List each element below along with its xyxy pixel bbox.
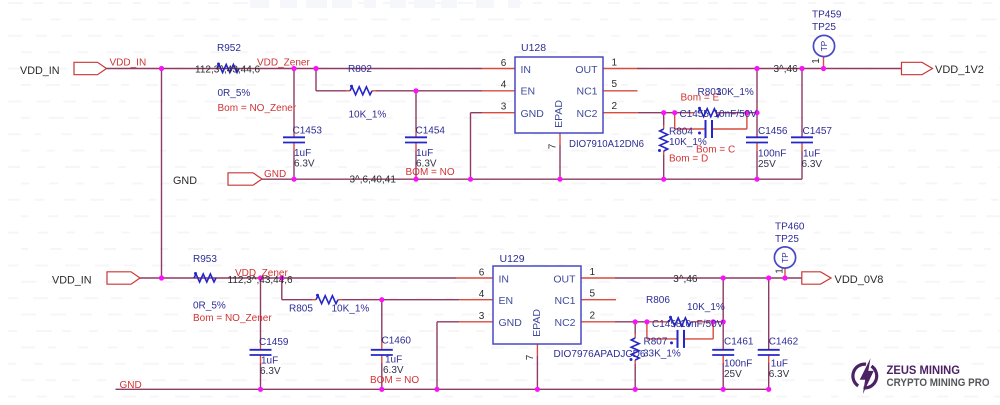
svg-text:Bom = NO_Zener: Bom = NO_Zener — [218, 103, 297, 114]
svg-text:25V: 25V — [758, 159, 776, 170]
svg-text:10K_1%: 10K_1% — [716, 87, 754, 98]
svg-text:Bom = D: Bom = D — [669, 154, 708, 165]
svg-text:100nF: 100nF — [758, 149, 786, 160]
svg-text:C1453: C1453 — [293, 126, 323, 137]
svg-text:BOM = NO: BOM = NO — [370, 375, 419, 386]
svg-text:4: 4 — [479, 289, 485, 300]
svg-text:0R_5%: 0R_5% — [193, 301, 226, 312]
svg-text:1: 1 — [590, 267, 596, 278]
svg-text:10K_1%: 10K_1% — [687, 302, 725, 313]
svg-text:ZEUS MINING: ZEUS MINING — [887, 365, 961, 377]
svg-text:10nF/50V: 10nF/50V — [714, 109, 758, 120]
svg-text:EN: EN — [499, 295, 514, 307]
svg-text:VDD_Zener: VDD_Zener — [257, 58, 310, 69]
svg-text:TP: TP — [781, 252, 790, 263]
svg-text:DIO7976APADJCD6: DIO7976APADJCD6 — [554, 348, 646, 360]
svg-text:NC2: NC2 — [554, 317, 575, 329]
svg-text:GND: GND — [173, 175, 197, 187]
svg-text:R806: R806 — [646, 295, 670, 306]
svg-text:5: 5 — [590, 289, 596, 300]
svg-text:VDD_IN: VDD_IN — [20, 65, 60, 77]
svg-text:C1458: C1458 — [652, 319, 682, 330]
svg-text:0R_5%: 0R_5% — [218, 88, 251, 99]
svg-text:TP459: TP459 — [812, 10, 842, 21]
svg-text:C1460: C1460 — [382, 336, 412, 347]
svg-text:VDD_0V8: VDD_0V8 — [835, 274, 884, 286]
svg-text:IN: IN — [499, 274, 510, 286]
svg-text:VDD_IN: VDD_IN — [110, 58, 147, 69]
svg-text:2: 2 — [590, 311, 596, 322]
svg-text:1uF: 1uF — [385, 355, 402, 366]
svg-text:OUT: OUT — [553, 274, 576, 286]
svg-text:100nF: 100nF — [724, 359, 752, 370]
svg-text:EPAD: EPAD — [553, 100, 565, 128]
svg-text:Bom = E: Bom = E — [681, 93, 720, 104]
svg-text:1uF: 1uF — [771, 359, 788, 370]
svg-text:6.3V: 6.3V — [294, 159, 315, 170]
svg-text:TP460: TP460 — [775, 222, 805, 233]
svg-text:DIO7910A12DN6: DIO7910A12DN6 — [569, 138, 644, 150]
svg-text:1uF: 1uF — [416, 148, 433, 159]
svg-text:R807: R807 — [644, 337, 668, 348]
svg-text:4: 4 — [501, 80, 507, 91]
svg-text:3: 3 — [479, 311, 485, 322]
svg-text:C1456: C1456 — [758, 126, 788, 137]
svg-text:C1462: C1462 — [769, 337, 799, 348]
svg-text:6.3V: 6.3V — [802, 159, 823, 170]
svg-text:3^,46: 3^,46 — [673, 274, 698, 285]
svg-text:3^,46: 3^,46 — [774, 64, 799, 75]
svg-text:3^,6,40,41: 3^,6,40,41 — [350, 175, 397, 186]
svg-text:BOM = NO: BOM = NO — [406, 167, 455, 178]
svg-text:GND: GND — [499, 317, 523, 329]
svg-text:Bom = NO_Zener: Bom = NO_Zener — [193, 313, 272, 324]
svg-text:CRYPTO MINING PRO: CRYPTO MINING PRO — [887, 377, 990, 389]
svg-text:R952: R952 — [217, 43, 241, 54]
svg-text:TP25: TP25 — [812, 22, 836, 33]
svg-text:EPAD: EPAD — [531, 309, 543, 337]
svg-text:VDD_1V2: VDD_1V2 — [935, 64, 984, 76]
svg-text:25V: 25V — [724, 369, 742, 380]
svg-text:1: 1 — [775, 268, 786, 274]
svg-text:33K_1%: 33K_1% — [643, 349, 681, 360]
svg-text:7: 7 — [525, 354, 536, 360]
svg-text:6: 6 — [479, 268, 485, 279]
svg-text:R953: R953 — [193, 254, 217, 265]
svg-text:TP25: TP25 — [775, 234, 799, 245]
svg-text:C1454: C1454 — [416, 126, 446, 137]
svg-text:NC2: NC2 — [576, 108, 597, 120]
svg-text:GND: GND — [264, 169, 286, 180]
svg-text:IN: IN — [521, 64, 532, 76]
svg-text:GND: GND — [120, 380, 142, 391]
svg-text:C1455: C1455 — [680, 109, 710, 120]
svg-text:10K_1%: 10K_1% — [332, 304, 370, 315]
svg-text:1uF: 1uF — [803, 149, 820, 160]
svg-text:U128: U128 — [521, 42, 546, 54]
svg-text:U129: U129 — [500, 253, 525, 265]
svg-text:GND: GND — [521, 108, 545, 120]
svg-text:R802: R802 — [348, 64, 372, 75]
svg-text:3: 3 — [501, 102, 507, 113]
svg-text:10K_1%: 10K_1% — [349, 110, 387, 121]
svg-text:1uF: 1uF — [294, 148, 311, 159]
svg-text:6.3V: 6.3V — [769, 369, 790, 380]
svg-text:1uF: 1uF — [261, 356, 278, 367]
svg-text:10nF/50V: 10nF/50V — [680, 319, 724, 330]
svg-text:R805: R805 — [289, 304, 313, 315]
svg-text:1: 1 — [612, 58, 618, 69]
svg-text:C1459: C1459 — [259, 337, 289, 348]
svg-text:C1461: C1461 — [724, 337, 754, 348]
svg-text:6: 6 — [501, 58, 507, 69]
svg-text:C1457: C1457 — [803, 126, 833, 137]
svg-text:5: 5 — [612, 79, 618, 90]
svg-text:NC1: NC1 — [576, 86, 597, 98]
svg-text:7: 7 — [548, 143, 559, 149]
svg-text:1: 1 — [811, 58, 822, 64]
svg-text:2: 2 — [612, 101, 618, 112]
svg-text:R804: R804 — [669, 127, 693, 138]
svg-text:TP: TP — [820, 40, 829, 51]
svg-text:VDD_IN: VDD_IN — [52, 275, 92, 287]
svg-text:VDD_Zener: VDD_Zener — [235, 268, 288, 279]
svg-text:OUT: OUT — [575, 64, 598, 76]
svg-text:NC1: NC1 — [554, 295, 575, 307]
svg-text:6.3V: 6.3V — [260, 366, 281, 377]
svg-text:EN: EN — [521, 86, 536, 98]
svg-text:112,3^,43,44,6: 112,3^,43,44,6 — [195, 65, 261, 76]
